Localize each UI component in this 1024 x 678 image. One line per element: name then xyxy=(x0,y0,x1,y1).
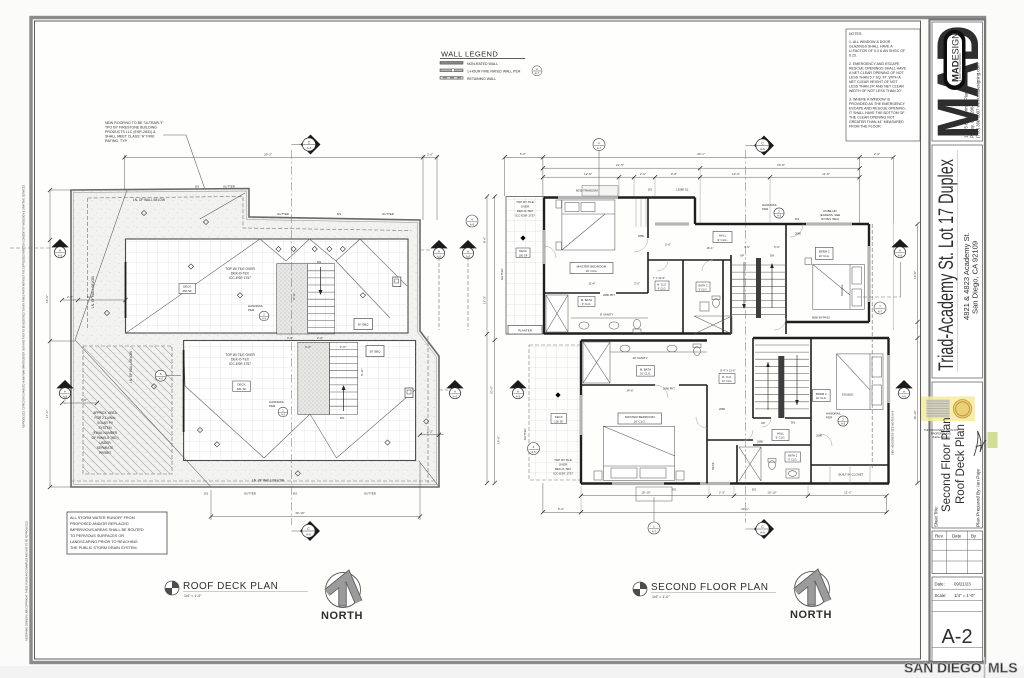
marker triangle B left xyxy=(56,380,73,399)
svg-text:10' CLG.: 10' CLG. xyxy=(585,269,597,273)
svg-text:32'-10": 32'-10" xyxy=(295,511,305,515)
labels top edge xyxy=(582,186,618,197)
svg-text:Rev.: Rev. xyxy=(935,534,944,539)
svg-text:10' CLG.: 10' CLG. xyxy=(816,396,827,400)
svg-text:16'-8": 16'-8" xyxy=(913,271,917,279)
svg-text:36" BBQ: 36" BBQ xyxy=(370,350,382,354)
svg-text:LANDSCAPING PRIOR TO REACHING: LANDSCAPING PRIOR TO REACHING xyxy=(70,540,138,544)
svg-text:DS: DS xyxy=(293,492,297,496)
svg-text:FOR 2.1 kWdc: FOR 2.1 kWdc xyxy=(95,416,116,420)
svg-text:RATING, TYP.: RATING, TYP. xyxy=(105,139,128,143)
marker circle 5/A-6 xyxy=(155,370,166,381)
svg-text:Date:: Date: xyxy=(935,582,945,587)
storm water note xyxy=(67,512,167,554)
svg-text:SEPARATE: SEPARATE xyxy=(97,446,114,450)
svg-text:LN. OF WALL BELOW: LN. OF WALL BELOW xyxy=(91,276,95,308)
svg-text:WIDTH OF NOT LESS THAN 20".: WIDTH OF NOT LESS THAN 20". xyxy=(849,89,903,93)
svg-text:DN: DN xyxy=(770,254,774,258)
svg-text:A-7: A-7 xyxy=(535,71,540,75)
svg-text:SYSTEM: SYSTEM xyxy=(98,426,111,430)
svg-text:OF PANELS TBD.): OF PANELS TBD.) xyxy=(92,436,119,440)
solar PV hatched area xyxy=(83,346,172,474)
svg-text:DS: DS xyxy=(204,492,208,496)
svg-text:A-7: A-7 xyxy=(652,529,657,533)
svg-text:DECK: DECK xyxy=(183,285,191,289)
svg-text:& DRAFTING SERVICES: & DRAFTING SERVICES xyxy=(959,53,962,82)
svg-text:17'-0": 17'-0" xyxy=(45,410,49,418)
marker triangle A left xyxy=(10,247,52,249)
svg-text:ABV. HD EGRESS SEE NOTES /A-5: ABV. HD EGRESS SEE NOTES /A-5 xyxy=(891,410,895,455)
svg-text:10' CLG.: 10' CLG. xyxy=(640,372,651,376)
svg-text:2'-2": 2'-2" xyxy=(427,430,433,434)
svg-text:8030 TRANSOM: 8030 TRANSOM xyxy=(576,189,598,193)
svg-text:2680: 2680 xyxy=(757,440,763,444)
svg-text:UNDER: UNDER xyxy=(99,441,111,445)
svg-text:By: By xyxy=(971,534,977,539)
dim extension lines xyxy=(581,168,808,512)
svg-text:PRODUCTS LLC (ESR-2831) &: PRODUCTS LLC (ESR-2831) & xyxy=(105,130,156,134)
svg-text:7'-0": 7'-0" xyxy=(81,398,87,402)
svg-text:DEK-O-TEX: DEK-O-TEX xyxy=(231,272,250,276)
svg-text:2680: 2680 xyxy=(816,434,822,438)
gutter / DS labels xyxy=(195,185,394,496)
master bed upper xyxy=(556,200,615,250)
svg-text:A NET CLEAR OPENING OF NOT: A NET CLEAR OPENING OF NOT xyxy=(849,71,905,75)
svg-text:40'-1": 40'-1" xyxy=(697,152,705,156)
svg-text:LN. OF WALL BELOW: LN. OF WALL BELOW xyxy=(133,198,165,202)
svg-text:2'-3": 2'-3" xyxy=(719,491,725,495)
BBQ boxes xyxy=(354,319,373,330)
svg-text:DOUBLE: DOUBLE xyxy=(840,284,844,296)
upper deck left xyxy=(506,197,544,335)
svg-text:WALL LEGEND: WALL LEGEND xyxy=(441,50,498,59)
WIC hatch top xyxy=(636,199,646,227)
svg-text:NET CLEAR HEIGHT OF NOT: NET CLEAR HEIGHT OF NOT xyxy=(849,80,898,84)
svg-text:SOLAR PV: SOLAR PV xyxy=(97,421,114,425)
svg-text:1/4" = 1'-0": 1/4" = 1'-0" xyxy=(652,595,670,599)
centerline vertical xyxy=(291,150,293,525)
svg-text:36" BBQ: 36" BBQ xyxy=(358,323,370,327)
hall label upper xyxy=(713,232,732,243)
svg-text:U-FACTOR OF 0.3 & AN SHGC OF: U-FACTOR OF 0.3 & AN SHGC OF xyxy=(849,49,906,53)
svg-text:8'-4" X 12'-6": 8'-4" X 12'-6" xyxy=(720,369,736,373)
svg-text:GUTTER: GUTTER xyxy=(364,492,376,496)
svg-text:NORTH: NORTH xyxy=(321,610,363,622)
svg-text:NOTES:: NOTES: xyxy=(849,32,862,36)
svg-text:NORTH: NORTH xyxy=(790,609,832,621)
svg-text:(FINAL NUMBER: (FINAL NUMBER xyxy=(93,431,118,435)
roofing spec note xyxy=(105,121,215,218)
svg-text:10' VANITY: 10' VANITY xyxy=(632,356,647,360)
svg-text:(760) 390-0007 www.madesignin: (760) 390-0007 www.madesigning.com xyxy=(976,63,981,138)
svg-text:DS: DS xyxy=(752,488,756,492)
svg-text:2. EMERGENCY AND ESCAPE: 2. EMERGENCY AND ESCAPE xyxy=(849,62,900,66)
svg-text:DEK-O-TEX: DEK-O-TEX xyxy=(231,358,250,362)
svg-text:2'-0": 2'-0" xyxy=(67,295,73,299)
svg-text:09/21/23: 09/21/23 xyxy=(954,582,971,587)
svg-text:9' CLG.: 9' CLG. xyxy=(717,238,727,242)
svg-text:REPRODUCED, COPIED OR CHANGED: REPRODUCED, COPIED OR CHANGED IN ANY WAY… xyxy=(23,184,26,428)
solar note text xyxy=(92,411,119,455)
svg-text:14'-6": 14'-6" xyxy=(497,436,501,444)
svg-text:OVER: OVER xyxy=(559,463,568,467)
svg-text:DN: DN xyxy=(340,416,344,420)
svg-text:TOP W/ TILE: TOP W/ TILE xyxy=(516,200,534,204)
svg-text:SAN DIEGO: SAN DIEGO xyxy=(904,660,982,676)
red disclaimer text xyxy=(924,428,958,439)
svg-text:23'-8": 23'-8" xyxy=(777,163,785,167)
svg-text:DESK: DESK xyxy=(711,462,715,470)
svg-text:20'-0": 20'-0" xyxy=(490,386,494,394)
bed upper bdrm2 xyxy=(805,258,864,309)
svg-text:PERMIT: PERMIT xyxy=(99,451,111,455)
svg-text:APPROX. AREA: APPROX. AREA xyxy=(93,411,117,415)
top tier 1 xyxy=(505,156,894,158)
wall legend xyxy=(440,50,542,81)
deck edge reinforcement bars xyxy=(125,262,127,318)
svg-text:GREATER THAN 44" MEASURED: GREATER THAN 44" MEASURED xyxy=(849,120,904,124)
svg-text:A-6: A-6 xyxy=(159,377,164,381)
svg-text:39'-2": 39'-2" xyxy=(264,153,272,157)
svg-text:8'-11": 8'-11" xyxy=(360,368,364,376)
svg-text:16'-1": 16'-1" xyxy=(706,246,713,250)
svg-text:GLAZINGS SHALL HAVE A: GLAZINGS SHALL HAVE A xyxy=(849,45,893,49)
stairs upper unit xyxy=(731,265,786,315)
svg-text:DEK-O-TEX: DEK-O-TEX xyxy=(555,467,571,471)
svg-text:3'-0": 3'-0" xyxy=(634,282,640,286)
M bath upper xyxy=(546,295,648,333)
bay below wall xyxy=(636,487,672,501)
right small dim 2'-2" xyxy=(420,434,444,436)
windows upper unit (gray) xyxy=(558,196,618,199)
left margin copyright text xyxy=(23,184,29,641)
svg-text:DS: DS xyxy=(672,488,676,492)
svg-text:1/4" = 1'-0": 1/4" = 1'-0" xyxy=(184,594,202,598)
svg-text:6'-0": 6'-0" xyxy=(87,295,93,299)
svg-text:2680: 2680 xyxy=(795,232,801,236)
svg-text:SECOND FLOOR PLAN: SECOND FLOOR PLAN xyxy=(651,582,768,593)
svg-text:M. CLO.: M. CLO. xyxy=(722,375,732,379)
svg-text:10' CLG.: 10' CLG. xyxy=(722,379,732,383)
svg-text:PER: PER xyxy=(248,308,255,312)
marker diamond C/A-6 top xyxy=(301,135,321,155)
door arcs upper xyxy=(544,224,803,330)
svg-text:9' CLG.: 9' CLG. xyxy=(658,286,667,290)
svg-text:9' CLG.: 9' CLG. xyxy=(582,302,592,306)
svg-text:THE CLEAR OPENING NOT: THE CLEAR OPENING NOT xyxy=(849,116,896,120)
svg-text:0.23.: 0.23. xyxy=(849,54,857,58)
svg-text:A-7: A-7 xyxy=(878,309,883,313)
bdrm2 upper xyxy=(815,247,833,259)
notes box xyxy=(846,29,920,141)
north arrow (left) xyxy=(326,573,361,608)
svg-text:A-7: A-7 xyxy=(597,146,602,150)
dashed line of wall below xyxy=(88,197,411,231)
svg-text:6'-0": 6'-0" xyxy=(305,345,311,349)
svg-text:43'-1": 43'-1" xyxy=(741,507,749,511)
svg-text:8080 BY-PASS: 8080 BY-PASS xyxy=(812,316,830,320)
top markers xyxy=(593,139,605,151)
bottom tier 2 xyxy=(543,511,887,513)
svg-text:NOTES /3E3): NOTES /3E3) xyxy=(821,217,839,221)
master bedroom label xyxy=(570,263,613,274)
roof deck plan title marker xyxy=(165,581,179,595)
svg-text:DS: DS xyxy=(648,188,652,192)
svg-text:RESCUE OPENINGS SHALL HAVE: RESCUE OPENINGS SHALL HAVE xyxy=(849,67,907,71)
svg-text:BATH 2: BATH 2 xyxy=(788,454,798,458)
stamp highlight xyxy=(921,397,975,422)
svg-text:FROM THE FLOOR.: FROM THE FLOOR. xyxy=(849,125,882,129)
svg-text:DS: DS xyxy=(795,217,799,221)
upper deck tiles xyxy=(126,239,409,333)
svg-text:BDRM 2: BDRM 2 xyxy=(819,250,830,254)
svg-text:DOUBLE: DOUBLE xyxy=(842,392,854,396)
master bedroom lower label xyxy=(618,413,662,424)
svg-text:MLS: MLS xyxy=(988,660,1018,676)
svg-text:LESS THAN 5.7 SQ. FT. WITH A: LESS THAN 5.7 SQ. FT. WITH A xyxy=(849,76,901,80)
svg-text:PROPOSED AND/OR REPLACED: PROPOSED AND/OR REPLACED xyxy=(70,522,129,526)
svg-text:A-5: A-5 xyxy=(531,450,536,454)
svg-text:San Diego, CA 92109: San Diego, CA 92109 xyxy=(971,241,980,314)
svg-text:LN. OF WALL BELOW: LN. OF WALL BELOW xyxy=(252,479,284,483)
svg-text:Poway, CA 92064: Poway, CA 92064 xyxy=(970,104,975,138)
svg-text:DN: DN xyxy=(317,260,321,264)
svg-text:11'-2": 11'-2" xyxy=(844,491,852,495)
svg-text:1/4" = 1'-0": 1/4" = 1'-0" xyxy=(954,593,975,598)
svg-text:8'-8": 8'-8" xyxy=(671,172,677,176)
door arcs lower xyxy=(655,385,832,446)
shower M bath lower xyxy=(583,342,707,383)
svg-text:IMPERVIOUS AREAS SHALL BE ROUT: IMPERVIOUS AREAS SHALL BE ROUTED xyxy=(70,528,144,532)
left side markers xyxy=(509,380,526,399)
marker diamond C/A-6 bottom xyxy=(300,521,320,541)
svg-text:17'-3": 17'-3" xyxy=(483,296,487,304)
stamp / sheet title section xyxy=(932,382,983,528)
svg-text:8' VANITY: 8' VANITY xyxy=(600,313,614,317)
svg-text:ICC-ESR 1757: ICC-ESR 1757 xyxy=(553,472,573,476)
small dims 2'-0" 6'-0" xyxy=(62,299,126,301)
svg-text:TOP W/ TILE: TOP W/ TILE xyxy=(554,458,572,462)
svg-text:12'-9": 12'-9" xyxy=(732,172,740,176)
marker triangle B right xyxy=(439,389,448,391)
deck labels lower xyxy=(225,353,255,366)
svg-text:2680: 2680 xyxy=(719,407,725,411)
svg-text:Date: Date xyxy=(952,534,962,539)
svg-text:11'-8": 11'-8" xyxy=(822,172,830,176)
svg-text:ROOF DECK PLAN: ROOF DECK PLAN xyxy=(183,581,278,592)
top dimension line 39'-2" xyxy=(122,153,439,221)
svg-text:ALL STORM WATER RUNOFF FROM: ALL STORM WATER RUNOFF FROM xyxy=(70,516,135,520)
right vertical dim xyxy=(917,224,919,483)
svg-text:481 SF: 481 SF xyxy=(237,387,247,391)
date / scale / sheet number xyxy=(932,577,983,662)
svg-text:GUTTER: GUTTER xyxy=(523,429,527,441)
svg-text:Plan Prepared By: Ian Paje: Plan Prepared By: Ian Paje xyxy=(976,469,982,527)
svg-text:DS: DS xyxy=(195,185,199,189)
svg-text:DS: DS xyxy=(337,212,341,216)
lower deck tiles xyxy=(184,341,416,461)
svg-text:TOP W/ TILE OVER: TOP W/ TILE OVER xyxy=(225,353,255,357)
bed lower master xyxy=(594,426,684,480)
svg-text:1. ALL WINDOW & DOOR: 1. ALL WINDOW & DOOR xyxy=(849,40,891,44)
svg-text:2680: 2680 xyxy=(638,234,644,238)
svg-text:BUILT-IN CLOSET: BUILT-IN CLOSET xyxy=(839,473,864,477)
roof slope diagonals xyxy=(75,190,439,487)
svg-text:21'-5": 21'-5" xyxy=(616,163,624,167)
svg-text:5'-0": 5'-0" xyxy=(558,507,564,511)
svg-text:2'-6": 2'-6" xyxy=(340,345,346,349)
left dimension line xyxy=(45,188,75,489)
svg-text:DN: DN xyxy=(791,421,795,425)
svg-text:TPO BY FIRESTONE BUILDING: TPO BY FIRESTONE BUILDING xyxy=(105,126,157,130)
svg-text:RETAINING WALL: RETAINING WALL xyxy=(467,77,496,81)
project title section xyxy=(932,145,983,378)
svg-text:16'-10": 16'-10" xyxy=(913,410,917,420)
svg-text:8'-6": 8'-6" xyxy=(483,237,487,243)
bottom tier 1 xyxy=(581,495,887,497)
svg-text:4'-0": 4'-0" xyxy=(287,336,293,340)
svg-text:15'-6": 15'-6" xyxy=(45,295,49,303)
svg-text:9' CLG.: 9' CLG. xyxy=(776,436,786,440)
interior walls upper unit xyxy=(544,198,786,335)
lower stair xyxy=(298,342,330,414)
svg-text:PLANTER: PLANTER xyxy=(518,329,533,333)
svg-text:5'-0": 5'-0" xyxy=(520,152,526,156)
left vertical dims xyxy=(487,197,495,484)
svg-text:10' CLG.: 10' CLG. xyxy=(634,419,646,423)
svg-text:ICC-ESR 1757: ICC-ESR 1757 xyxy=(229,276,251,280)
top tier 3 xyxy=(543,176,860,178)
svg-text:LN. OF WALL BELOW: LN. OF WALL BELOW xyxy=(129,351,133,383)
svg-text:PER: PER xyxy=(826,416,833,420)
svg-text:SHALL MEET CLASS "A" FIRE: SHALL MEET CLASS "A" FIRE xyxy=(105,135,155,139)
svg-text:ICC-ESR 1757: ICC-ESR 1757 xyxy=(229,362,251,366)
svg-text:3. WHERE A WINDOW IS: 3. WHERE A WINDOW IS xyxy=(849,98,891,102)
svg-text:2'-6": 2'-6" xyxy=(317,336,323,340)
svg-text:GUTTER: GUTTER xyxy=(277,212,289,216)
svg-text:12'-8": 12'-8" xyxy=(584,172,592,176)
svg-text:100 SF: 100 SF xyxy=(554,419,563,423)
built-in closet xyxy=(830,465,870,484)
svg-text:DECK: DECK xyxy=(237,383,245,387)
svg-text:7' X 10'-6": 7' X 10'-6" xyxy=(653,276,665,280)
svg-text:A-6: A-6 xyxy=(470,222,475,226)
green smudge xyxy=(988,432,998,448)
svg-text:ICC-ESR 1757: ICC-ESR 1757 xyxy=(515,214,535,218)
revision table xyxy=(932,531,983,574)
top tier 2 xyxy=(543,167,860,169)
svg-text:UP: UP xyxy=(740,254,744,258)
svg-text:8'-11": 8'-11" xyxy=(292,292,296,300)
deck labels upper xyxy=(225,267,255,280)
svg-text:TO PERVIOUS SURFACES OR: TO PERVIOUS SURFACES OR xyxy=(70,534,124,538)
bottom dimension 32'-10" xyxy=(211,463,420,520)
svg-text:Sheet Title:: Sheet Title: xyxy=(934,506,939,527)
svg-text:THE PUBLIC STORM DRAIN SYSTEM.: THE PUBLIC STORM DRAIN SYSTEM. xyxy=(70,546,138,550)
svg-text:14'-6": 14'-6" xyxy=(626,389,633,393)
svg-text:LESS THAN 24" AND NET CLEAR: LESS THAN 24" AND NET CLEAR xyxy=(849,85,904,89)
svg-text:GUTTER: GUTTER xyxy=(244,492,256,496)
north arrow (right) xyxy=(795,572,830,607)
svg-text:10' CLG.: 10' CLG. xyxy=(819,254,830,258)
svg-text:9' CLG.: 9' CLG. xyxy=(699,287,708,291)
svg-text:9' CLG.: 9' CLG. xyxy=(788,458,797,462)
svg-text:GUTTER: GUTTER xyxy=(223,185,235,189)
svg-text:PER: PER xyxy=(269,404,276,408)
lower deck left xyxy=(529,345,581,480)
svg-text:11'-4": 11'-4" xyxy=(588,282,595,286)
roof outline stippled area xyxy=(71,189,439,488)
svg-text:UP: UP xyxy=(761,421,765,425)
svg-text:3'-6": 3'-6" xyxy=(744,245,750,249)
svg-text:GUTTER: GUTTER xyxy=(500,269,504,281)
svg-text:450 SF: 450 SF xyxy=(182,289,192,293)
windows lower unit xyxy=(612,482,664,485)
svg-text:Scale:: Scale: xyxy=(935,593,947,598)
bed lower bdrm2 xyxy=(837,354,883,410)
svg-text:GUTTER: GUTTER xyxy=(382,212,394,216)
svg-text:A-2: A-2 xyxy=(941,626,972,648)
stairs lower unit xyxy=(755,345,809,409)
svg-text:M. CLO.: M. CLO. xyxy=(657,282,667,286)
svg-text:DEK-O-TEX: DEK-O-TEX xyxy=(517,209,533,213)
svg-text:IT SHALL HAVE THE BOTTOM OF: IT SHALL HAVE THE BOTTOM OF xyxy=(849,111,905,115)
svg-text:Triad-Academy St. Lot 17 Duple: Triad-Academy St. Lot 17 Duplex xyxy=(935,159,958,371)
svg-text:BDRM 2: BDRM 2 xyxy=(816,392,827,396)
hall lower xyxy=(772,430,789,441)
bath2 lower xyxy=(739,447,799,481)
svg-text:RESERVING COMMON LAW COPYRIGHT: RESERVING COMMON LAW COPYRIGHT. THESE PL… xyxy=(26,521,29,641)
slope diamonds xyxy=(104,210,428,476)
right side markers xyxy=(871,224,873,470)
svg-text:2'-0": 2'-0" xyxy=(427,153,433,157)
bdrm2 lower xyxy=(813,390,831,402)
svg-text:Roof Deck Plan: Roof Deck Plan xyxy=(955,424,967,504)
svg-text:2'-0": 2'-0" xyxy=(640,172,646,176)
svg-text:OVER: OVER xyxy=(521,205,530,209)
svg-text:PER: PER xyxy=(762,207,769,211)
svg-text:TOP W/ TILE OVER: TOP W/ TILE OVER xyxy=(225,267,255,271)
second floor plan title marker xyxy=(633,582,647,596)
svg-text:PROVIDED AS THE EMERGENCY: PROVIDED AS THE EMERGENCY xyxy=(849,102,906,106)
svg-text:BATH 2: BATH 2 xyxy=(699,283,708,287)
svg-text:5'-6": 5'-6" xyxy=(665,243,671,247)
upper stair xyxy=(277,264,308,334)
svg-text:Second Floor Plan: Second Floor Plan xyxy=(941,417,953,512)
svg-text:NEW ROOFING TO BE "ULTRAPLY": NEW ROOFING TO BE "ULTRAPLY" xyxy=(105,121,164,125)
svg-text:2680 PKT.: 2680 PKT. xyxy=(603,293,616,297)
svg-text:19'-10": 19'-10" xyxy=(641,491,651,495)
svg-text:2'-0": 2'-0" xyxy=(874,152,880,156)
title block outer xyxy=(930,20,986,662)
svg-text:10'-10": 10'-10" xyxy=(767,491,777,495)
small roof fixtures xyxy=(393,277,401,287)
svg-text:NON-RATED WALL: NON-RATED WALL xyxy=(467,62,498,66)
logo section xyxy=(932,22,983,141)
svg-text:5'-6": 5'-6" xyxy=(774,245,780,249)
svg-text:1-HOUR FIRE RATED WALL PER: 1-HOUR FIRE RATED WALL PER xyxy=(467,69,521,73)
interior walls lower unit xyxy=(581,338,889,484)
svg-text:12975 Brookprinter Place, Suit: 12975 Brookprinter Place, Suite 270 xyxy=(964,68,969,138)
svg-text:12080 SL.: 12080 SL. xyxy=(676,188,689,192)
svg-text:100 SF: 100 SF xyxy=(518,253,527,257)
markers between plans xyxy=(420,249,432,251)
svg-text:ESCAPE AND RESCUE OPENING,: ESCAPE AND RESCUE OPENING, xyxy=(849,107,906,111)
